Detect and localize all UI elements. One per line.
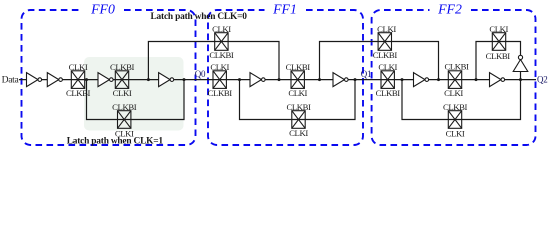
svg-text:CLKI: CLKI — [446, 128, 465, 138]
transmission gate (FF0 input) — [71, 71, 84, 89]
svg-text:CLKBI: CLKBI — [444, 62, 469, 72]
svg-text:CLKI: CLKI — [377, 24, 396, 34]
node: FF0 slave node junction — [147, 78, 150, 81]
inverter (FF1 output) — [333, 73, 348, 87]
svg-text:CLKBI: CLKBI — [110, 62, 135, 72]
svg-text:CLKBI: CLKBI — [373, 50, 398, 60]
node: FF1 master node junction — [238, 78, 241, 81]
node: FF0 master node junction — [85, 78, 88, 81]
svg-text:CLKI: CLKI — [113, 88, 132, 98]
svg-text:CLKBI: CLKBI — [376, 88, 401, 98]
wire: FF1/FF2 top latch path (CLK=0) — [320, 42, 439, 80]
transmission gate (FF2 input) — [381, 71, 394, 89]
transmission gate (FF2 output latch) — [492, 33, 505, 51]
highlight region (latch paths) in FF0 — [84, 57, 184, 131]
svg-text:CLKI: CLKI — [444, 88, 463, 98]
svg-text:CLKBI: CLKBI — [486, 51, 511, 61]
inverter (input buffer 1) — [27, 73, 42, 87]
transmission gate (FF1 input) — [213, 71, 226, 89]
inverter (FF2 output) — [490, 73, 505, 87]
inverter (FF2 feedback, vertical) — [513, 55, 528, 71]
node: FF2 slave node junction — [475, 78, 478, 81]
svg-text:CLKBI: CLKBI — [286, 102, 311, 112]
transmission gate (FF0 bottom latch) — [118, 111, 131, 129]
svg-text:CLKI: CLKI — [489, 24, 508, 34]
svg-text:Data: Data — [2, 74, 20, 85]
wire: main signal row Data to Q2 — [19, 79, 536, 81]
svg-text:FF0: FF0 — [90, 2, 115, 17]
FF2 cell boundary (dashed box) — [372, 10, 536, 145]
svg-text:FF2: FF2 — [437, 2, 462, 17]
transmission gate (FF1 bottom latch) — [292, 111, 305, 129]
transmission gate (FF2 middle) — [448, 71, 461, 89]
svg-text:CLKI: CLKI — [288, 88, 307, 98]
svg-text:CLKBI: CLKBI — [209, 50, 234, 60]
wire: FF2 output latch path (CLK=0) — [476, 42, 521, 80]
svg-text:Q0: Q0 — [195, 69, 206, 79]
wire: FF2 bottom latch path (CLK=1) — [402, 80, 521, 120]
node: FF2 master node junction — [401, 78, 404, 81]
transmission gate (top latch, FF2 side) — [378, 33, 391, 51]
transmission gate (FF1 middle) — [291, 71, 304, 89]
inverter (input buffer 2) — [47, 73, 62, 87]
svg-text:Q2: Q2 — [537, 74, 547, 84]
svg-text:Latch path when CLK=0: Latch path when CLK=0 — [151, 12, 248, 22]
svg-text:CLKBI: CLKBI — [208, 88, 233, 98]
svg-text:FF1: FF1 — [272, 2, 297, 17]
transmission gate (top latch, FF1 side) — [215, 33, 228, 51]
svg-text:CLKBI: CLKBI — [443, 102, 468, 112]
wire: FF0 bottom latch path (CLK=1) — [87, 80, 185, 120]
svg-text:CLKBI: CLKBI — [286, 62, 311, 72]
inverter (FF1 master) — [250, 73, 265, 87]
svg-text:CLKI: CLKI — [210, 62, 229, 72]
node: FF0 output junction — [183, 78, 186, 81]
svg-text:Q1: Q1 — [361, 69, 371, 79]
node: FF2 output junction Q2 — [519, 78, 522, 81]
wire: FF1 bottom latch path (CLK=1) — [240, 80, 356, 120]
svg-text:CLKI: CLKI — [289, 128, 308, 138]
transmission gate (FF0 middle) — [115, 71, 128, 89]
svg-text:CLKI: CLKI — [212, 24, 231, 34]
wire: FF0/FF1 top latch path (CLK=0) — [148, 42, 279, 80]
inverter (FF0 master) — [98, 73, 113, 87]
svg-text:CLKI: CLKI — [378, 62, 397, 72]
node: FF1 slave node junction — [318, 78, 321, 81]
transmission gate (FF2 bottom latch) — [448, 111, 461, 129]
svg-text:CLKI: CLKI — [69, 62, 88, 72]
inverter (FF0 output) — [159, 73, 174, 87]
FF0 cell boundary (dashed box) — [22, 10, 196, 145]
svg-text:CLKBI: CLKBI — [112, 102, 137, 112]
node: FF2 top-latch junction — [437, 78, 440, 81]
inverter (FF2 master) — [414, 73, 429, 87]
node: FF1 top-latch junction — [278, 78, 281, 81]
svg-text:CLKBI: CLKBI — [66, 88, 91, 98]
svg-text:CLKI: CLKI — [115, 128, 134, 138]
FF1 cell boundary (dashed box) — [208, 10, 363, 145]
node: FF1 output junction — [354, 78, 357, 81]
